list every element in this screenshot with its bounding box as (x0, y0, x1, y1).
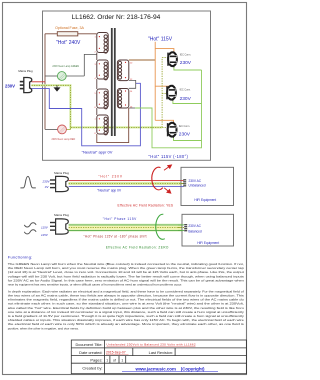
S1 pin dot (125, 62, 126, 63)
svg-text:"Neutral" appr 0V: "Neutral" appr 0V (82, 150, 113, 155)
transformer secondary winding S1 (117, 60, 128, 81)
J2 label IEC Conn (180, 88, 192, 91)
primary section link 1 (96, 53, 98, 61)
svg-text:230V: 230V (180, 96, 192, 102)
functioning paragraph 2 (8, 289, 245, 330)
svg-text:Mains Plug: Mains Plug (54, 171, 69, 175)
svg-text:"Hot" 115V: "Hot" 115V (148, 37, 173, 43)
earth branch outlet1 (162, 57, 167, 59)
svg-text:"Hot" 230V: "Hot" 230V (98, 175, 123, 179)
svg-text:"Hot" Phase 115V at -180° p: "Hot" Phase 115V at -180° phase shift (84, 234, 147, 238)
wire neutral from lamp to primary junction (84, 54, 96, 76)
svg-text:230V Neon Lamp RED: 230V Neon Lamp RED (51, 139, 75, 141)
mains plug P1 (20, 78, 32, 93)
svg-text:Balanced: Balanced (188, 229, 202, 233)
wire neutral blue from plug (32, 83, 141, 146)
neon lamp RED lead (45, 128, 58, 130)
earth branch outlet2 (162, 92, 167, 94)
svg-text:LL1662. Order Nr: 218-176-94: LL1662. Order Nr: 218-176-94 (72, 14, 161, 21)
P1 pin numbers (94, 37, 96, 39)
svg-text:2015-Sep-07: 2015-Sep-07 (106, 351, 126, 355)
svg-text:Effective AC Field Radiation:: Effective AC Field Radiation: YES (118, 203, 174, 207)
fuse F1 (57, 32, 78, 36)
svg-text:Effective AC Field Radiation:: Effective AC Field Radiation: ZERO (106, 245, 169, 249)
P1 pin dot (99, 36, 100, 37)
waveform 115V sine b (24, 230, 36, 234)
J1 label IEC Conn (180, 53, 192, 56)
box1 wires entry (181, 181, 184, 187)
P2 pin dot (99, 63, 100, 64)
fuse label (55, 26, 84, 30)
orange branch outlet2 (155, 86, 173, 88)
neon lamp GREEN leads (45, 75, 58, 77)
waveform 230V sine (20, 176, 35, 188)
svg-text:near by equipment has very sen: near by equipment has very sensitive inp… (8, 283, 182, 287)
earth wire light band left (32, 85, 163, 127)
ground symbol (56, 85, 58, 87)
transformer primary winding P2 (97, 60, 108, 80)
svg-text:230V: 230V (5, 83, 15, 88)
svg-text:Unbalanced: Unbalanced (189, 184, 206, 188)
secondary S2 bottom wire (129, 107, 135, 109)
svg-text:positive, when the other is ne: positive, when the other is negative, an… (8, 326, 79, 330)
P4 pin dot (99, 118, 100, 119)
primary bottom return wire (97, 108, 129, 143)
P2 pin numbers (94, 64, 96, 66)
svg-text:of: of (113, 358, 116, 362)
neon lamp RED label (51, 139, 75, 141)
radiation arrow down (164, 188, 171, 193)
svg-text:Functioning:: Functioning: (8, 255, 33, 260)
IEC outlet J1 (168, 51, 177, 67)
svg-text:115V: 115V (41, 225, 49, 229)
svg-text:Date created:: Date created: (79, 350, 102, 355)
wire plug hot red stub (32, 81, 46, 83)
row2 hot wire green a (69, 224, 182, 226)
earth dashed vertical to outlets (161, 58, 163, 128)
green branch outlet1 (174, 66, 202, 70)
IEC outlet J3 (168, 122, 177, 138)
box2 terminal marks (184, 224, 187, 231)
row1 neutral wire blue (69, 186, 181, 188)
transformer secondary winding S2 (117, 89, 128, 109)
primary section link 2 (96, 79, 98, 89)
wire orange hot bus (154, 42, 156, 121)
waveform 115V sine a (24, 223, 36, 227)
neon lamp RED right lead (66, 127, 70, 129)
svg-text:IEC Conn.: IEC Conn. (179, 125, 191, 128)
row1 hot wire red (69, 180, 181, 182)
svg-text:115V: 115V (41, 233, 49, 237)
transformer core (111, 28, 113, 136)
row2 glow band (69, 224, 182, 232)
wire hot brown horizontal to fuse (45, 33, 97, 35)
green branch outlet2 (173, 100, 202, 104)
title block table frame (71, 340, 246, 374)
svg-text:Unbalanded 230Volt to Balanced: Unbalanded 230Volt to Balanced 230 Volts… (107, 342, 196, 346)
S2 pin dot (125, 90, 126, 91)
secondary S1 top wire (129, 59, 155, 61)
svg-text:HiFi Equipment: HiFi Equipment (194, 198, 216, 202)
P3 pin dot (99, 92, 100, 93)
svg-text:Created by:: Created by: (82, 366, 102, 371)
primary section link 3 (96, 108, 98, 115)
J3 label IEC Conn (179, 125, 191, 128)
svg-text:230V: 230V (180, 60, 192, 66)
svg-text:Document Title:: Document Title: (75, 342, 102, 347)
S1 pin numbers (130, 62, 133, 64)
neon lamp GREEN (57, 72, 66, 81)
svg-text:"Hot" Phase 115V: "Hot" Phase 115V (103, 217, 137, 221)
svg-text:Mains Plug: Mains Plug (54, 213, 69, 217)
S2 pin numbers (130, 91, 133, 93)
svg-text:Last Revision:: Last Revision: (149, 350, 173, 355)
mains plug P2 (50, 176, 68, 191)
orange branch outlet3 (155, 120, 173, 123)
svg-text:230V AC: 230V AC (189, 179, 202, 183)
radiation loop green (156, 214, 165, 239)
svg-text:230V Neon Lamp GREEN: 230V Neon Lamp GREEN (52, 66, 79, 68)
svg-text:HiFi Equipment: HiFi Equipment (197, 241, 219, 245)
svg-text:IEC Conn.: IEC Conn. (180, 88, 192, 91)
orange branch outlet1 (155, 49, 174, 53)
svg-text:Mains Plug: Mains Plug (18, 69, 33, 73)
mains plug P3 (50, 219, 68, 234)
functioning paragraph 1 (8, 262, 245, 287)
neon lamp GREEN label (52, 66, 79, 68)
row2 inner yellow band (69, 226, 182, 230)
svg-text:"Neutral" app 0V: "Neutral" app 0V (97, 188, 122, 192)
svg-text:1: 1 (106, 358, 108, 362)
radiation arrow up (164, 165, 172, 170)
svg-text:230V AC: 230V AC (188, 224, 201, 228)
row2 hot wire green b (69, 229, 182, 231)
svg-text:230V: 230V (42, 179, 51, 183)
svg-text:"Hot" 115V (-180°): "Hot" 115V (-180°) (149, 154, 189, 159)
hifi box 1 (181, 167, 234, 205)
box2 wires entry (178, 225, 184, 231)
P3 pin numbers (94, 93, 96, 95)
transformer primary winding P1 (97, 33, 108, 54)
svg-text:"Hot" 240V: "Hot" 240V (56, 40, 81, 46)
neon lamp RED (58, 125, 67, 134)
box1 terminal marks (183, 179, 186, 186)
page border frame (3, 3, 247, 375)
P4 pin numbers (94, 119, 96, 121)
transformer primary winding P4 (97, 115, 108, 135)
IEC outlet J2 (167, 85, 176, 101)
hifi box 2 (182, 214, 234, 246)
row2 earth dashed (69, 227, 182, 229)
svg-text:1: 1 (121, 358, 123, 362)
secondary series link (129, 80, 136, 88)
green phase bus (135, 70, 201, 148)
row1 earth band (69, 182, 181, 185)
svg-text:IEC Conn.: IEC Conn. (180, 53, 192, 56)
wire hot brown vertical (44, 34, 46, 130)
svg-text:Pages:: Pages: (90, 358, 102, 363)
svg-text:www.jacmusic.com (Copyright: www.jacmusic.com (Copyright) (135, 366, 205, 371)
transformer primary winding P3 (97, 89, 108, 109)
schematic enclosure box (43, 11, 211, 160)
radiation loop red (152, 167, 163, 190)
row1 earth dashed (69, 183, 181, 185)
earth wire dashed left (32, 85, 168, 127)
svg-text:Optional Fuse, 3A: Optional Fuse, 3A (55, 26, 84, 30)
svg-text:230V: 230V (179, 131, 191, 137)
green branch outlet3 (174, 137, 202, 141)
